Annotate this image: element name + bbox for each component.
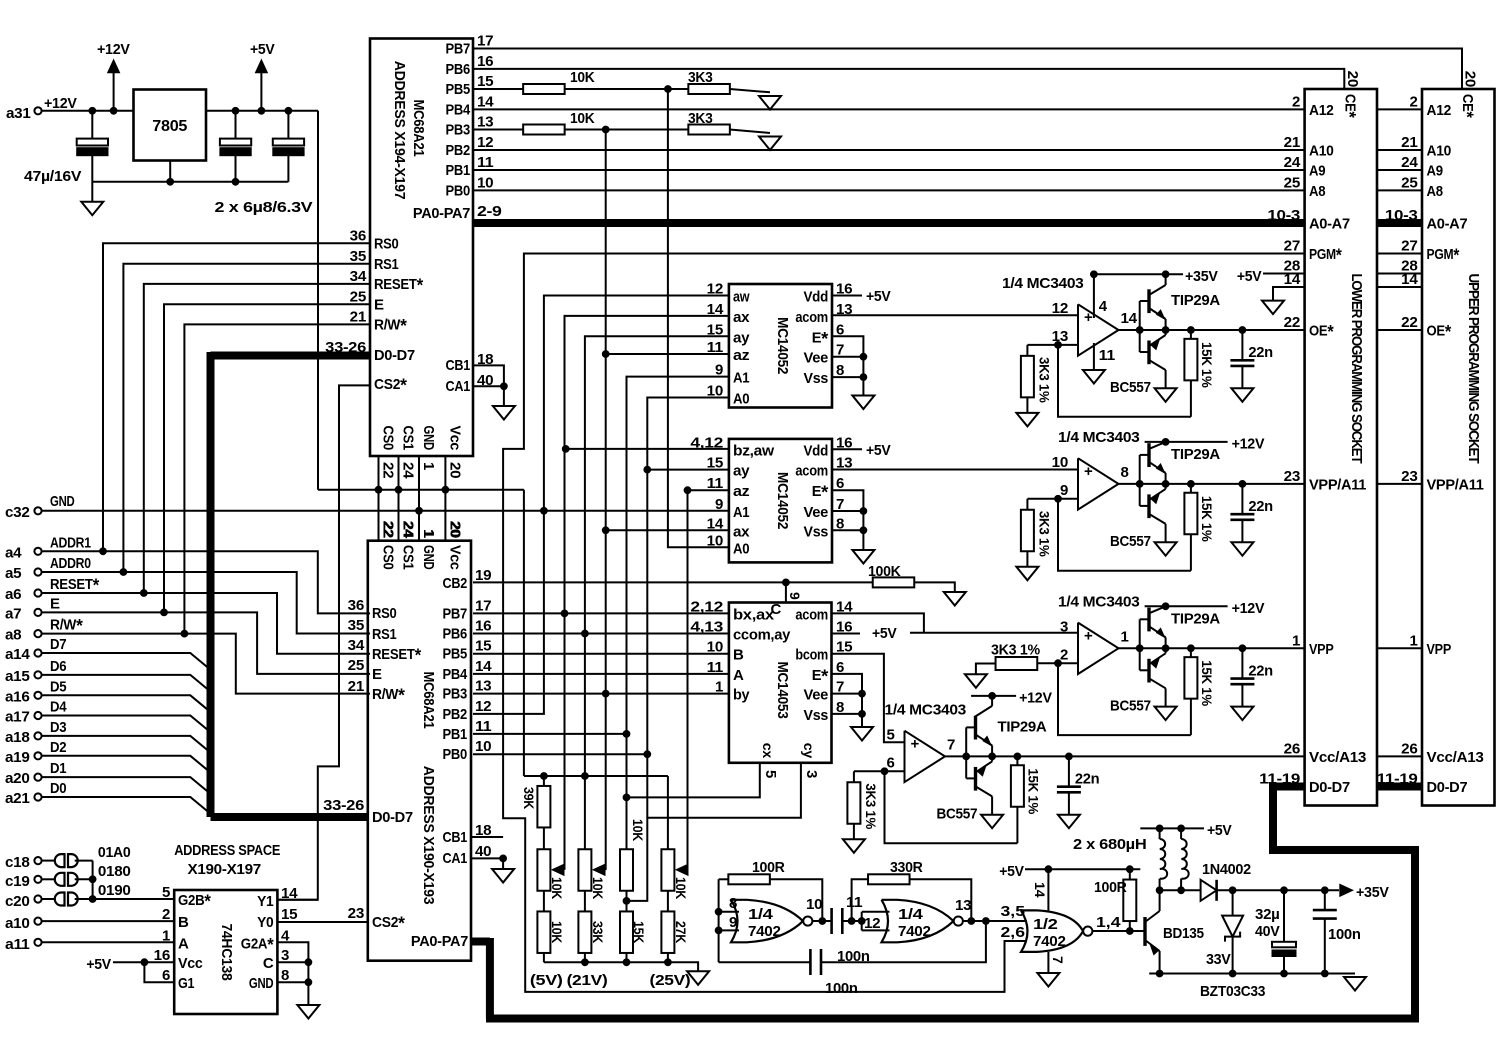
- svg-text:GND: GND: [420, 426, 437, 451]
- svg-text:+12V: +12V: [1232, 435, 1265, 452]
- ground BC557 collector: [1155, 542, 1177, 556]
- wire feedback to -in: [1058, 499, 1191, 571]
- svg-text:a7: a7: [5, 605, 21, 622]
- arrow end 100K: [944, 592, 966, 606]
- svg-text:20: 20: [446, 521, 463, 537]
- op-amp 1/4 MC3403 output pin 8: [1078, 458, 1119, 509]
- svg-text:a21: a21: [5, 790, 30, 807]
- svg-text:ccom,ay: ccom,ay: [733, 627, 791, 644]
- svg-text:35: 35: [348, 617, 364, 634]
- svg-text:15K 1%: 15K 1%: [1025, 768, 1041, 814]
- svg-text:a18: a18: [5, 729, 30, 746]
- wire E/Vee/Vss gnd hook 14052-1: [832, 336, 863, 395]
- wire PB0 to A8: [473, 189, 1305, 191]
- svg-text:CS0: CS0: [380, 426, 397, 451]
- svg-text:14: 14: [1121, 310, 1138, 327]
- svg-text:12: 12: [1052, 300, 1068, 317]
- resistor 10K col1 bottom: [537, 911, 550, 953]
- svg-text:8: 8: [729, 895, 737, 912]
- svg-text:RS0: RS0: [374, 235, 399, 252]
- svg-text:9: 9: [715, 496, 723, 513]
- svg-text:GND: GND: [249, 975, 274, 992]
- node az row junction: [684, 487, 691, 494]
- wire PB4 to A: [473, 673, 729, 675]
- wire PB2 to A10: [473, 149, 1305, 151]
- svg-text:E: E: [372, 666, 382, 683]
- svg-text:A12: A12: [1427, 102, 1452, 119]
- wire gate3 output to BD135 base: [1092, 930, 1145, 932]
- svg-text:3: 3: [1060, 618, 1068, 635]
- svg-text:15: 15: [281, 906, 297, 923]
- svg-text:10K: 10K: [630, 819, 645, 841]
- wire -in row: [1058, 498, 1078, 500]
- svg-text:D0-D7: D0-D7: [1427, 779, 1468, 796]
- svg-text:21: 21: [1401, 134, 1417, 151]
- svg-text:PB1: PB1: [443, 726, 468, 743]
- svg-text:D0-D7: D0-D7: [372, 809, 413, 826]
- svg-text:10K: 10K: [590, 877, 605, 899]
- svg-text:12: 12: [864, 915, 880, 932]
- svg-text:20: 20: [1462, 71, 1479, 87]
- svg-text:24: 24: [400, 462, 417, 479]
- op-amp 1/4 MC3403 output pin 7: [905, 731, 946, 782]
- svg-text:11: 11: [846, 894, 862, 911]
- svg-text:9: 9: [1060, 482, 1068, 499]
- svg-text:a6: a6: [5, 586, 21, 603]
- svg-text:c19: c19: [5, 873, 30, 890]
- svg-text:+5V: +5V: [1237, 268, 1262, 285]
- svg-text:CB2: CB2: [443, 575, 468, 592]
- svg-text:PB5: PB5: [443, 646, 468, 663]
- svg-text:1/4 MC3403: 1/4 MC3403: [1058, 429, 1140, 446]
- wire PB7 to upper socket CE: [473, 49, 1462, 90]
- svg-text:ADDRESS X190-X193: ADDRESS X190-X193: [420, 766, 437, 905]
- wire gate2 out to gate3: [963, 920, 1028, 922]
- svg-text:25: 25: [348, 657, 364, 674]
- svg-text:G2A*: G2A*: [241, 934, 274, 955]
- svg-text:A8: A8: [1309, 183, 1325, 200]
- svg-text:BC557: BC557: [1110, 697, 1151, 714]
- svg-text:C: C: [263, 955, 274, 972]
- svg-text:PB2: PB2: [443, 706, 468, 723]
- wire gate2 input pair: [861, 912, 863, 931]
- svg-text:PB1: PB1: [446, 162, 471, 179]
- svg-text:9: 9: [787, 592, 803, 600]
- svg-text:33K: 33K: [590, 921, 605, 943]
- svg-text:22: 22: [380, 462, 397, 478]
- wire Vdd-1 +5V stub: [832, 295, 862, 297]
- svg-text:23: 23: [1284, 468, 1300, 485]
- wire PB3 to by: [473, 693, 729, 695]
- svg-text:22: 22: [380, 521, 397, 537]
- svg-text:10K: 10K: [549, 877, 564, 899]
- resistor 10K col3 mid: [626, 797, 628, 849]
- wire feedback to -in: [1058, 663, 1191, 735]
- svg-text:9: 9: [729, 914, 737, 931]
- svg-text:13: 13: [475, 678, 491, 695]
- svg-text:11: 11: [707, 659, 723, 676]
- wire +35V output row: [1217, 889, 1339, 891]
- svg-text:CE*: CE*: [1339, 94, 1359, 119]
- svg-text:LOWER PROGRAMMING SOCKET: LOWER PROGRAMMING SOCKET: [1348, 273, 1364, 463]
- svg-text:+5V: +5V: [866, 442, 891, 459]
- node ladder col3 top: [623, 794, 630, 801]
- svg-text:CA1: CA1: [446, 378, 471, 395]
- svg-text:3K3 1%: 3K3 1%: [863, 783, 879, 829]
- svg-text:7402: 7402: [1033, 933, 1066, 950]
- svg-text:CE*: CE*: [1457, 94, 1477, 119]
- svg-text:by: by: [733, 687, 750, 704]
- capacitor 22n: [1241, 484, 1243, 514]
- wire Y0 to CS2 lower: [277, 921, 367, 923]
- ground 14052-1: [852, 396, 874, 410]
- svg-text:A0-A7: A0-A7: [1427, 216, 1468, 233]
- resistor 33K col2 bottom: [578, 911, 591, 953]
- wire PB1 row: [473, 733, 627, 735]
- capacitor 100n bottom: [719, 961, 811, 963]
- transistor Q TIP29A NPN: [1139, 455, 1141, 506]
- wire op2 out to socket VPP/A11 pin 23: [1242, 483, 1304, 485]
- svg-text:32µ: 32µ: [1255, 906, 1280, 923]
- transistor Q TIP29A NPN: [1139, 619, 1141, 670]
- svg-text:E: E: [374, 296, 384, 313]
- svg-text:D0-D7: D0-D7: [374, 347, 415, 364]
- svg-text:11: 11: [707, 339, 723, 356]
- svg-text:ADDRESS X194-X197: ADDRESS X194-X197: [391, 61, 408, 200]
- svg-text:A12: A12: [1309, 102, 1334, 119]
- ground 22n: [1231, 542, 1253, 556]
- svg-text:4,13: 4,13: [690, 619, 723, 636]
- svg-text:+35V: +35V: [1356, 884, 1389, 901]
- svg-text:7: 7: [947, 736, 955, 753]
- svg-text:40V: 40V: [1255, 923, 1280, 940]
- node by row junction: [602, 690, 609, 697]
- svg-text:+5V: +5V: [872, 625, 897, 642]
- capacitor 22n: [1068, 756, 1070, 786]
- svg-text:12: 12: [477, 134, 493, 151]
- wire acom-2 to op-amp2: [832, 469, 1078, 471]
- IC U1 MC68A21 ADDRESS X194-X197: [370, 39, 473, 457]
- svg-text:2: 2: [1409, 93, 1417, 110]
- svg-text:15K 1%: 15K 1%: [1199, 496, 1215, 542]
- svg-text:c32: c32: [5, 504, 30, 521]
- ground 3K3: [1016, 413, 1038, 427]
- svg-text:PA0-PA7: PA0-PA7: [413, 205, 470, 222]
- svg-text:Vee: Vee: [804, 687, 829, 704]
- svg-text:(21V): (21V): [567, 972, 608, 989]
- svg-text:10: 10: [477, 174, 493, 191]
- svg-text:3,5: 3,5: [1001, 903, 1026, 920]
- transistor Q5 BD135: [1143, 917, 1146, 946]
- capacitor C-in 47u/16V: [91, 111, 93, 139]
- +12V supply arrow: [113, 72, 115, 111]
- diode D1 1N4002: [1201, 880, 1217, 901]
- thick bus D0-D7 sockets hook: [1269, 783, 1305, 791]
- wire feedback to -in: [1058, 345, 1191, 417]
- svg-text:CS1: CS1: [400, 545, 417, 570]
- svg-text:cy: cy: [801, 743, 817, 759]
- svg-text:13: 13: [955, 897, 971, 914]
- wire 0190 to G2B: [93, 898, 175, 900]
- svg-text:14: 14: [1401, 271, 1418, 288]
- transistor Q BC557 PNP: [1140, 505, 1149, 507]
- wire output row: [1119, 647, 1243, 649]
- wire PB6 to ccom,ay: [473, 633, 729, 635]
- svg-text:A: A: [178, 935, 189, 952]
- svg-text:MC14052: MC14052: [774, 472, 791, 529]
- resistor 100K on CB2: [873, 577, 915, 587]
- svg-text:Vcc: Vcc: [178, 955, 203, 972]
- wire +5V rail down to PIA supply: [317, 111, 319, 490]
- svg-text:D0-D7: D0-D7: [1309, 779, 1350, 796]
- svg-text:15K: 15K: [631, 921, 646, 943]
- wire az stub 14052-1: [606, 353, 729, 355]
- svg-text:15: 15: [707, 455, 723, 472]
- transistor Q BC557 PNP: [1140, 351, 1149, 353]
- resistor 10K on PB5: [473, 88, 523, 90]
- svg-text:D5: D5: [50, 678, 66, 695]
- arrow +35V: [1340, 884, 1353, 896]
- svg-text:7402: 7402: [748, 923, 781, 940]
- svg-text:2: 2: [1292, 93, 1300, 110]
- svg-text:Vcc/A13: Vcc/A13: [1427, 749, 1484, 766]
- wire GND rail c32 to A1 MC14052-2: [42, 510, 729, 512]
- svg-text:B: B: [178, 914, 189, 931]
- svg-text:+12V: +12V: [1232, 600, 1265, 617]
- wire PB5 to B: [473, 653, 729, 655]
- svg-text:+12V: +12V: [97, 41, 130, 58]
- svg-text:TIP29A: TIP29A: [1171, 446, 1220, 463]
- svg-text:25: 25: [350, 288, 366, 305]
- svg-text:10: 10: [806, 896, 822, 913]
- capacitor C-out1 6u8: [235, 111, 237, 139]
- gate G1 1/4 7402: [731, 900, 803, 943]
- wire PB0 row: [473, 753, 647, 755]
- resistor 3K3 1% to ground: [1027, 498, 1058, 500]
- svg-text:Vee: Vee: [804, 350, 829, 367]
- gate G3 1/2 7402: [1021, 910, 1083, 952]
- wire PB6 to lower socket CE: [473, 69, 1344, 89]
- svg-text:11: 11: [707, 475, 723, 492]
- wire +12V stub: [1162, 439, 1169, 446]
- wire output row: [1119, 329, 1243, 331]
- svg-text:1/4 MC3403: 1/4 MC3403: [1058, 593, 1140, 610]
- ground gate3: [1037, 973, 1059, 987]
- wire +12V stub: [1162, 603, 1169, 610]
- svg-text:330R: 330R: [890, 859, 923, 876]
- svg-text:TIP29A: TIP29A: [1171, 292, 1220, 309]
- svg-text:34: 34: [348, 637, 365, 654]
- svg-text:A1: A1: [733, 504, 749, 521]
- capacitor C 100n output: [1324, 890, 1326, 910]
- svg-text:acom: acom: [795, 309, 828, 326]
- svg-text:VPP/A11: VPP/A11: [1427, 476, 1484, 493]
- svg-text:PB6: PB6: [446, 61, 471, 78]
- svg-text:Y1: Y1: [257, 893, 273, 910]
- svg-text:a15: a15: [5, 668, 30, 685]
- pin 16 Vdd stub 14053: [832, 633, 861, 635]
- svg-text:a4: a4: [5, 544, 22, 561]
- ground 3K3: [1016, 567, 1038, 581]
- svg-text:PB2: PB2: [446, 142, 471, 159]
- svg-text:3K3: 3K3: [688, 110, 713, 127]
- wire G2A/C/GND ground hook: [277, 942, 308, 1005]
- svg-text:TIP29A: TIP29A: [998, 718, 1047, 735]
- svg-text:ADDR0: ADDR0: [50, 555, 91, 572]
- wire CB1 lower to PGM chain: [471, 836, 503, 838]
- svg-text:VPP: VPP: [1309, 641, 1334, 658]
- svg-text:12: 12: [475, 698, 491, 715]
- svg-text:1: 1: [1409, 632, 1417, 649]
- svg-text:(5V): (5V): [530, 972, 563, 989]
- svg-text:100K: 100K: [868, 563, 901, 580]
- LOWER PROGRAMMING SOCKET: [1305, 89, 1377, 806]
- resistor 15K 1% feedback: [1190, 484, 1192, 493]
- svg-text:27: 27: [1401, 238, 1417, 255]
- svg-text:26: 26: [1401, 740, 1417, 757]
- svg-text:A0: A0: [733, 540, 749, 557]
- wire op1 out to socket OE pin 22: [1242, 329, 1304, 331]
- svg-text:4,12: 4,12: [690, 434, 723, 451]
- wire +12V input: [42, 110, 134, 112]
- wire op-amp pin 11 to ground: [1093, 343, 1095, 370]
- svg-text:3K3: 3K3: [688, 69, 713, 86]
- ground 14053: [851, 727, 873, 741]
- ground CB1/CA1 upper: [493, 406, 515, 420]
- svg-text:14: 14: [1032, 882, 1048, 898]
- svg-text:24: 24: [400, 521, 417, 538]
- IC U2 MC68A21 ADDRESS X190-X193: [368, 541, 471, 961]
- svg-text:22: 22: [1401, 314, 1417, 331]
- wire socket pin 14 to ground: [1273, 287, 1305, 301]
- svg-text:100n: 100n: [1328, 926, 1361, 943]
- svg-text:az: az: [733, 483, 749, 500]
- svg-text:PB6: PB6: [443, 626, 468, 643]
- thick bus bottom PA0-PA7 run: [486, 1015, 1419, 1023]
- svg-text:15: 15: [707, 321, 723, 338]
- wire +5V feed coils: [1140, 827, 1204, 829]
- node A0 wire to col3 mid: [627, 398, 729, 901]
- capacitor 22n: [1241, 648, 1243, 678]
- wire PGM net from socket via CB1 lower to oscillator enable: [503, 254, 1305, 992]
- svg-text:PB5: PB5: [446, 81, 471, 98]
- svg-text:BC557: BC557: [1110, 533, 1151, 550]
- svg-text:27K: 27K: [673, 921, 688, 943]
- wire acom-14053 to op-amp3: [832, 613, 924, 632]
- svg-text:D6: D6: [50, 658, 66, 675]
- svg-text:10K: 10K: [570, 110, 595, 127]
- wire CB1/CA1 tie: [473, 365, 504, 406]
- resistor 3K3 1% to ground: [854, 770, 885, 772]
- svg-text:25: 25: [1401, 174, 1417, 191]
- svg-text:74HC138: 74HC138: [218, 923, 235, 980]
- wire +5V/acom3 row to op-amp3 +in: [910, 632, 1078, 634]
- svg-text:D7: D7: [50, 636, 66, 653]
- resistor 10K on PB3: [473, 129, 523, 131]
- bus D0-D7 to lower PIA: [211, 813, 369, 821]
- ground op-amp pin 11: [1083, 370, 1105, 384]
- bus D0-D7 upper PIA to data bus: [211, 352, 371, 360]
- resistor 39K col1: [543, 776, 545, 786]
- svg-text:15K 1%: 15K 1%: [1199, 660, 1215, 706]
- resistor 10K col4 mid: [667, 776, 669, 849]
- svg-text:01A0: 01A0: [98, 844, 131, 861]
- svg-text:Vcc/A13: Vcc/A13: [1309, 749, 1366, 766]
- wire +35V rail with op-amp pin 4: [1093, 274, 1095, 318]
- wire Vdd-2 +5V stub: [832, 448, 862, 450]
- svg-text:aw: aw: [733, 289, 750, 306]
- wire acom-1 to op-amp1: [832, 314, 1078, 316]
- svg-text:ay: ay: [733, 463, 750, 480]
- wire 7805 gnd pin: [169, 161, 171, 182]
- svg-text:OE*: OE*: [1427, 321, 1452, 342]
- svg-text:12: 12: [707, 281, 723, 298]
- svg-text:D4: D4: [50, 699, 67, 716]
- svg-text:MC14053: MC14053: [774, 661, 791, 718]
- svg-text:36: 36: [350, 227, 366, 244]
- svg-text:2: 2: [1060, 646, 1068, 663]
- svg-text:A10: A10: [1427, 143, 1452, 160]
- svg-text:D1: D1: [50, 760, 66, 777]
- UPPER PROGRAMMING SOCKET: [1422, 89, 1495, 806]
- svg-text:6: 6: [886, 754, 894, 771]
- svg-text:17: 17: [477, 33, 493, 50]
- svg-text:15: 15: [477, 73, 493, 90]
- svg-text:a19: a19: [5, 749, 30, 766]
- svg-text:1: 1: [1121, 628, 1129, 645]
- svg-text:3K3 1%: 3K3 1%: [991, 641, 1040, 658]
- wire ground row boost: [1149, 973, 1355, 975]
- svg-text:5: 5: [886, 726, 894, 743]
- resistor 3K3 1% horizontal to ground: [1037, 662, 1058, 664]
- svg-text:RS1: RS1: [372, 626, 397, 643]
- wire az-14052-2 to ladder col4 arrow: [687, 490, 689, 866]
- svg-text:10-3: 10-3: [1267, 207, 1300, 224]
- wire +5V drop to ladder rail: [523, 490, 525, 776]
- svg-text:33-26: 33-26: [323, 797, 364, 814]
- svg-text:MC14052: MC14052: [774, 317, 791, 374]
- resistor 10K col1 mid: [537, 849, 550, 891]
- svg-text:MC68A21: MC68A21: [420, 671, 437, 728]
- ground 74HC138: [297, 1005, 319, 1019]
- ground socket pin 14: [1262, 301, 1284, 315]
- svg-text:a16: a16: [5, 688, 30, 705]
- resistor 15K 1% feedback: [1190, 648, 1192, 657]
- ground boost: [1344, 977, 1366, 991]
- svg-text:1: 1: [715, 679, 723, 696]
- svg-text:PB4: PB4: [446, 101, 471, 118]
- wire output row: [1119, 483, 1243, 485]
- IC U4 MC14052: [729, 439, 832, 563]
- wire 7805 output +5V: [206, 110, 318, 112]
- svg-text:E*: E*: [812, 328, 829, 349]
- ground BC557 collector: [981, 815, 1003, 829]
- op-amp 1/4 MC3403 output pin 1: [1078, 623, 1119, 674]
- svg-text:1: 1: [420, 529, 437, 537]
- svg-text:1/4 MC3403: 1/4 MC3403: [885, 701, 967, 718]
- svg-text:10K: 10K: [570, 69, 595, 86]
- IC U5 MC14053: [729, 603, 832, 763]
- wire PB4 to A12: [473, 108, 1305, 110]
- svg-text:1/4: 1/4: [898, 906, 924, 923]
- wire +12V stub: [989, 693, 996, 700]
- svg-text:ay: ay: [733, 329, 750, 346]
- wire Y1 stub: [277, 899, 317, 901]
- wire gate1 input 8: [719, 911, 739, 913]
- zener D2 BZT03C33: [1232, 890, 1234, 915]
- capacitor C-out2 6u8: [287, 111, 289, 139]
- svg-text:GND: GND: [420, 545, 437, 570]
